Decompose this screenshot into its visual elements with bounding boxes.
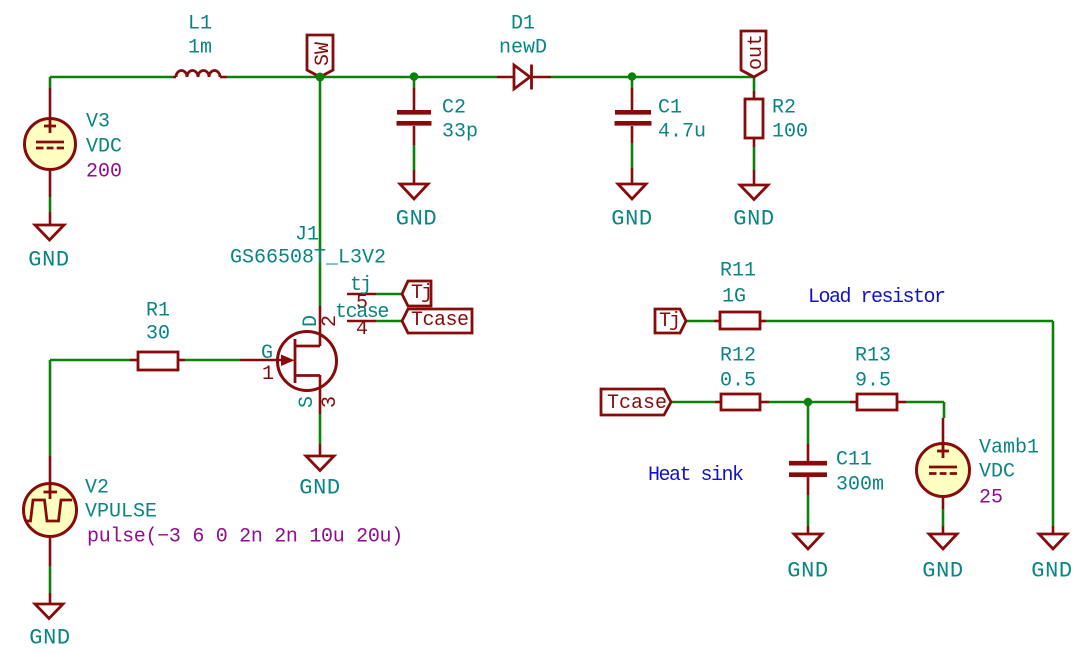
wire C1 bottom to GND: [631, 143, 634, 168]
svg-text:S: S: [296, 396, 319, 408]
wire label Tj to R11: [686, 320, 714, 323]
hierarchical label SW: [307, 35, 335, 77]
svg-text:GND: GND: [396, 207, 437, 232]
wire V2 bottom to GND: [49, 566, 52, 593]
svg-text:33p: 33p: [442, 121, 478, 144]
svg-text:Vamb1: Vamb1: [979, 437, 1039, 460]
svg-text:200: 200: [86, 161, 122, 184]
wire node down to C11: [807, 402, 810, 444]
transistor J1 GS66508T_L3V2: [230, 224, 388, 415]
ground GND (C2): [396, 170, 437, 232]
svg-text:newD: newD: [499, 37, 547, 60]
svg-text:9.5: 9.5: [855, 370, 891, 393]
wire top rail from node C2 to D1 anode: [414, 76, 497, 79]
svg-text:Tcase: Tcase: [411, 309, 469, 332]
global label Tj (at J1): [402, 281, 431, 306]
wire V3 top: [49, 77, 52, 88]
svg-text:Tj: Tj: [659, 310, 679, 333]
wire label Tcase to R12: [671, 401, 715, 404]
wire top rail from V3 to L1: [50, 76, 173, 79]
svg-text:1m: 1m: [188, 37, 212, 60]
svg-text:100: 100: [772, 121, 808, 144]
hierarchical label out: [741, 31, 768, 77]
svg-text:3: 3: [319, 396, 342, 408]
svg-text:GND: GND: [787, 559, 828, 584]
svg-text:4.7u: 4.7u: [658, 121, 706, 144]
wire R12 right to node: [769, 401, 808, 404]
wire pin tj to label Tj: [376, 293, 402, 296]
note Load resistor: [808, 286, 945, 309]
ground GND (J1 source): [299, 444, 340, 501]
svg-text:Heat sink: Heat sink: [648, 464, 743, 487]
ground GND (load): [1031, 526, 1072, 584]
svg-text:R2: R2: [772, 97, 796, 120]
ground GND (V2): [29, 593, 70, 651]
wire top rail from L1 to node SW: [227, 76, 320, 79]
wire top rail from node C1 to out corner: [632, 76, 754, 79]
voltage source V2 VPULSE: [24, 456, 403, 566]
svg-text:V2: V2: [85, 477, 109, 500]
resistor R2: [745, 91, 808, 147]
ground GND (Vamb1): [922, 526, 963, 584]
svg-text:C11: C11: [836, 449, 872, 472]
wire pin tcase to label Tcase: [376, 320, 402, 323]
svg-text:VPULSE: VPULSE: [85, 501, 157, 524]
svg-text:R1: R1: [146, 300, 170, 323]
ground GND (R2): [733, 170, 774, 232]
wire node C1 down: [631, 77, 634, 88]
svg-text:C2: C2: [442, 97, 466, 120]
svg-text:4: 4: [356, 318, 368, 341]
svg-text:R12: R12: [720, 345, 756, 368]
svg-text:30: 30: [146, 323, 170, 346]
node SW junction: [316, 73, 325, 82]
svg-text:C1: C1: [658, 97, 682, 120]
voltage source V3: [25, 88, 123, 197]
svg-text:G: G: [261, 342, 273, 365]
wire node to R13 left: [808, 401, 850, 404]
svg-text:J1: J1: [295, 224, 319, 247]
svg-text:VDC: VDC: [86, 136, 122, 159]
svg-text:Tj: Tj: [411, 282, 431, 305]
wire R13 right to Vamb1 corner: [906, 401, 944, 404]
node thermal junction: [804, 398, 813, 407]
ground GND (V3): [28, 212, 69, 273]
svg-text:0.5: 0.5: [720, 370, 756, 393]
svg-text:25: 25: [979, 487, 1003, 510]
svg-text:GND: GND: [29, 626, 70, 651]
wire Vamb1 corner down: [943, 402, 946, 418]
node C1 junction: [628, 72, 637, 81]
svg-text:R11: R11: [720, 260, 756, 283]
capacitor C2: [397, 88, 479, 145]
wire corner to R1 left: [50, 359, 130, 362]
resistor R12: [715, 345, 769, 411]
wire node SW down to J1 drain: [319, 77, 322, 306]
wire C11 bottom to GND: [807, 495, 810, 526]
note Heat sink: [648, 464, 743, 487]
svg-text:GND: GND: [299, 476, 340, 501]
ground GND (C1): [611, 168, 652, 232]
svg-text:GND: GND: [733, 207, 774, 232]
global label Tcase (thermal): [601, 389, 671, 415]
wire V2 top to R1 left corner: [49, 360, 52, 456]
wire Vamb1 bottom to GND: [942, 509, 945, 526]
svg-text:300m: 300m: [836, 474, 884, 497]
wire top rail from node SW to node C2: [320, 76, 414, 79]
svg-text:1: 1: [262, 363, 274, 386]
inductor L1: [173, 13, 227, 78]
resistor R11: [714, 260, 766, 330]
svg-text:D1: D1: [511, 13, 535, 36]
voltage source Vamb1: [917, 418, 1040, 510]
wire V3 bottom to GND: [49, 197, 52, 212]
svg-text:pulse(−3 6 0 2n 2n 10u 20u): pulse(−3 6 0 2n 2n 10u 20u): [87, 526, 403, 549]
ground GND (C11): [787, 526, 828, 584]
svg-text:GND: GND: [611, 207, 652, 232]
svg-text:L1: L1: [188, 13, 212, 36]
global label Tcase (at J1): [402, 309, 472, 333]
svg-text:GND: GND: [28, 248, 69, 273]
global label Tj (thermal): [655, 309, 686, 333]
svg-text:GS66508T_L3V2: GS66508T_L3V2: [230, 247, 386, 270]
svg-text:out: out: [745, 34, 768, 70]
svg-text:GND: GND: [1031, 559, 1072, 584]
wire R11 right to right corner: [766, 320, 1053, 323]
svg-text:R13: R13: [855, 345, 891, 368]
svg-text:GND: GND: [922, 559, 963, 584]
svg-text:V3: V3: [86, 111, 110, 134]
wire out corner down to R2: [753, 77, 756, 91]
wire right corner down to GND: [1052, 321, 1055, 526]
wire node C2 down: [413, 77, 416, 88]
wire R2 bottom to GND: [753, 147, 756, 170]
wire top rail from D1 cathode to node C1: [551, 76, 632, 79]
diode D1: [497, 13, 551, 90]
svg-text:Tcase: Tcase: [607, 392, 667, 415]
capacitor C11: [789, 444, 884, 497]
svg-text:Load resistor: Load resistor: [808, 286, 945, 309]
resistor R13: [850, 345, 906, 411]
wire J1 source to GND: [319, 414, 322, 444]
wire R1 right to J1 gate: [185, 359, 240, 362]
svg-text:VDC: VDC: [979, 461, 1015, 484]
resistor R1: [130, 300, 185, 371]
capacitor C1: [615, 88, 707, 144]
wire C2 bottom to GND: [413, 145, 416, 170]
svg-text:SW: SW: [312, 42, 335, 66]
svg-text:1G: 1G: [722, 286, 746, 309]
node C2 junction: [410, 72, 419, 81]
